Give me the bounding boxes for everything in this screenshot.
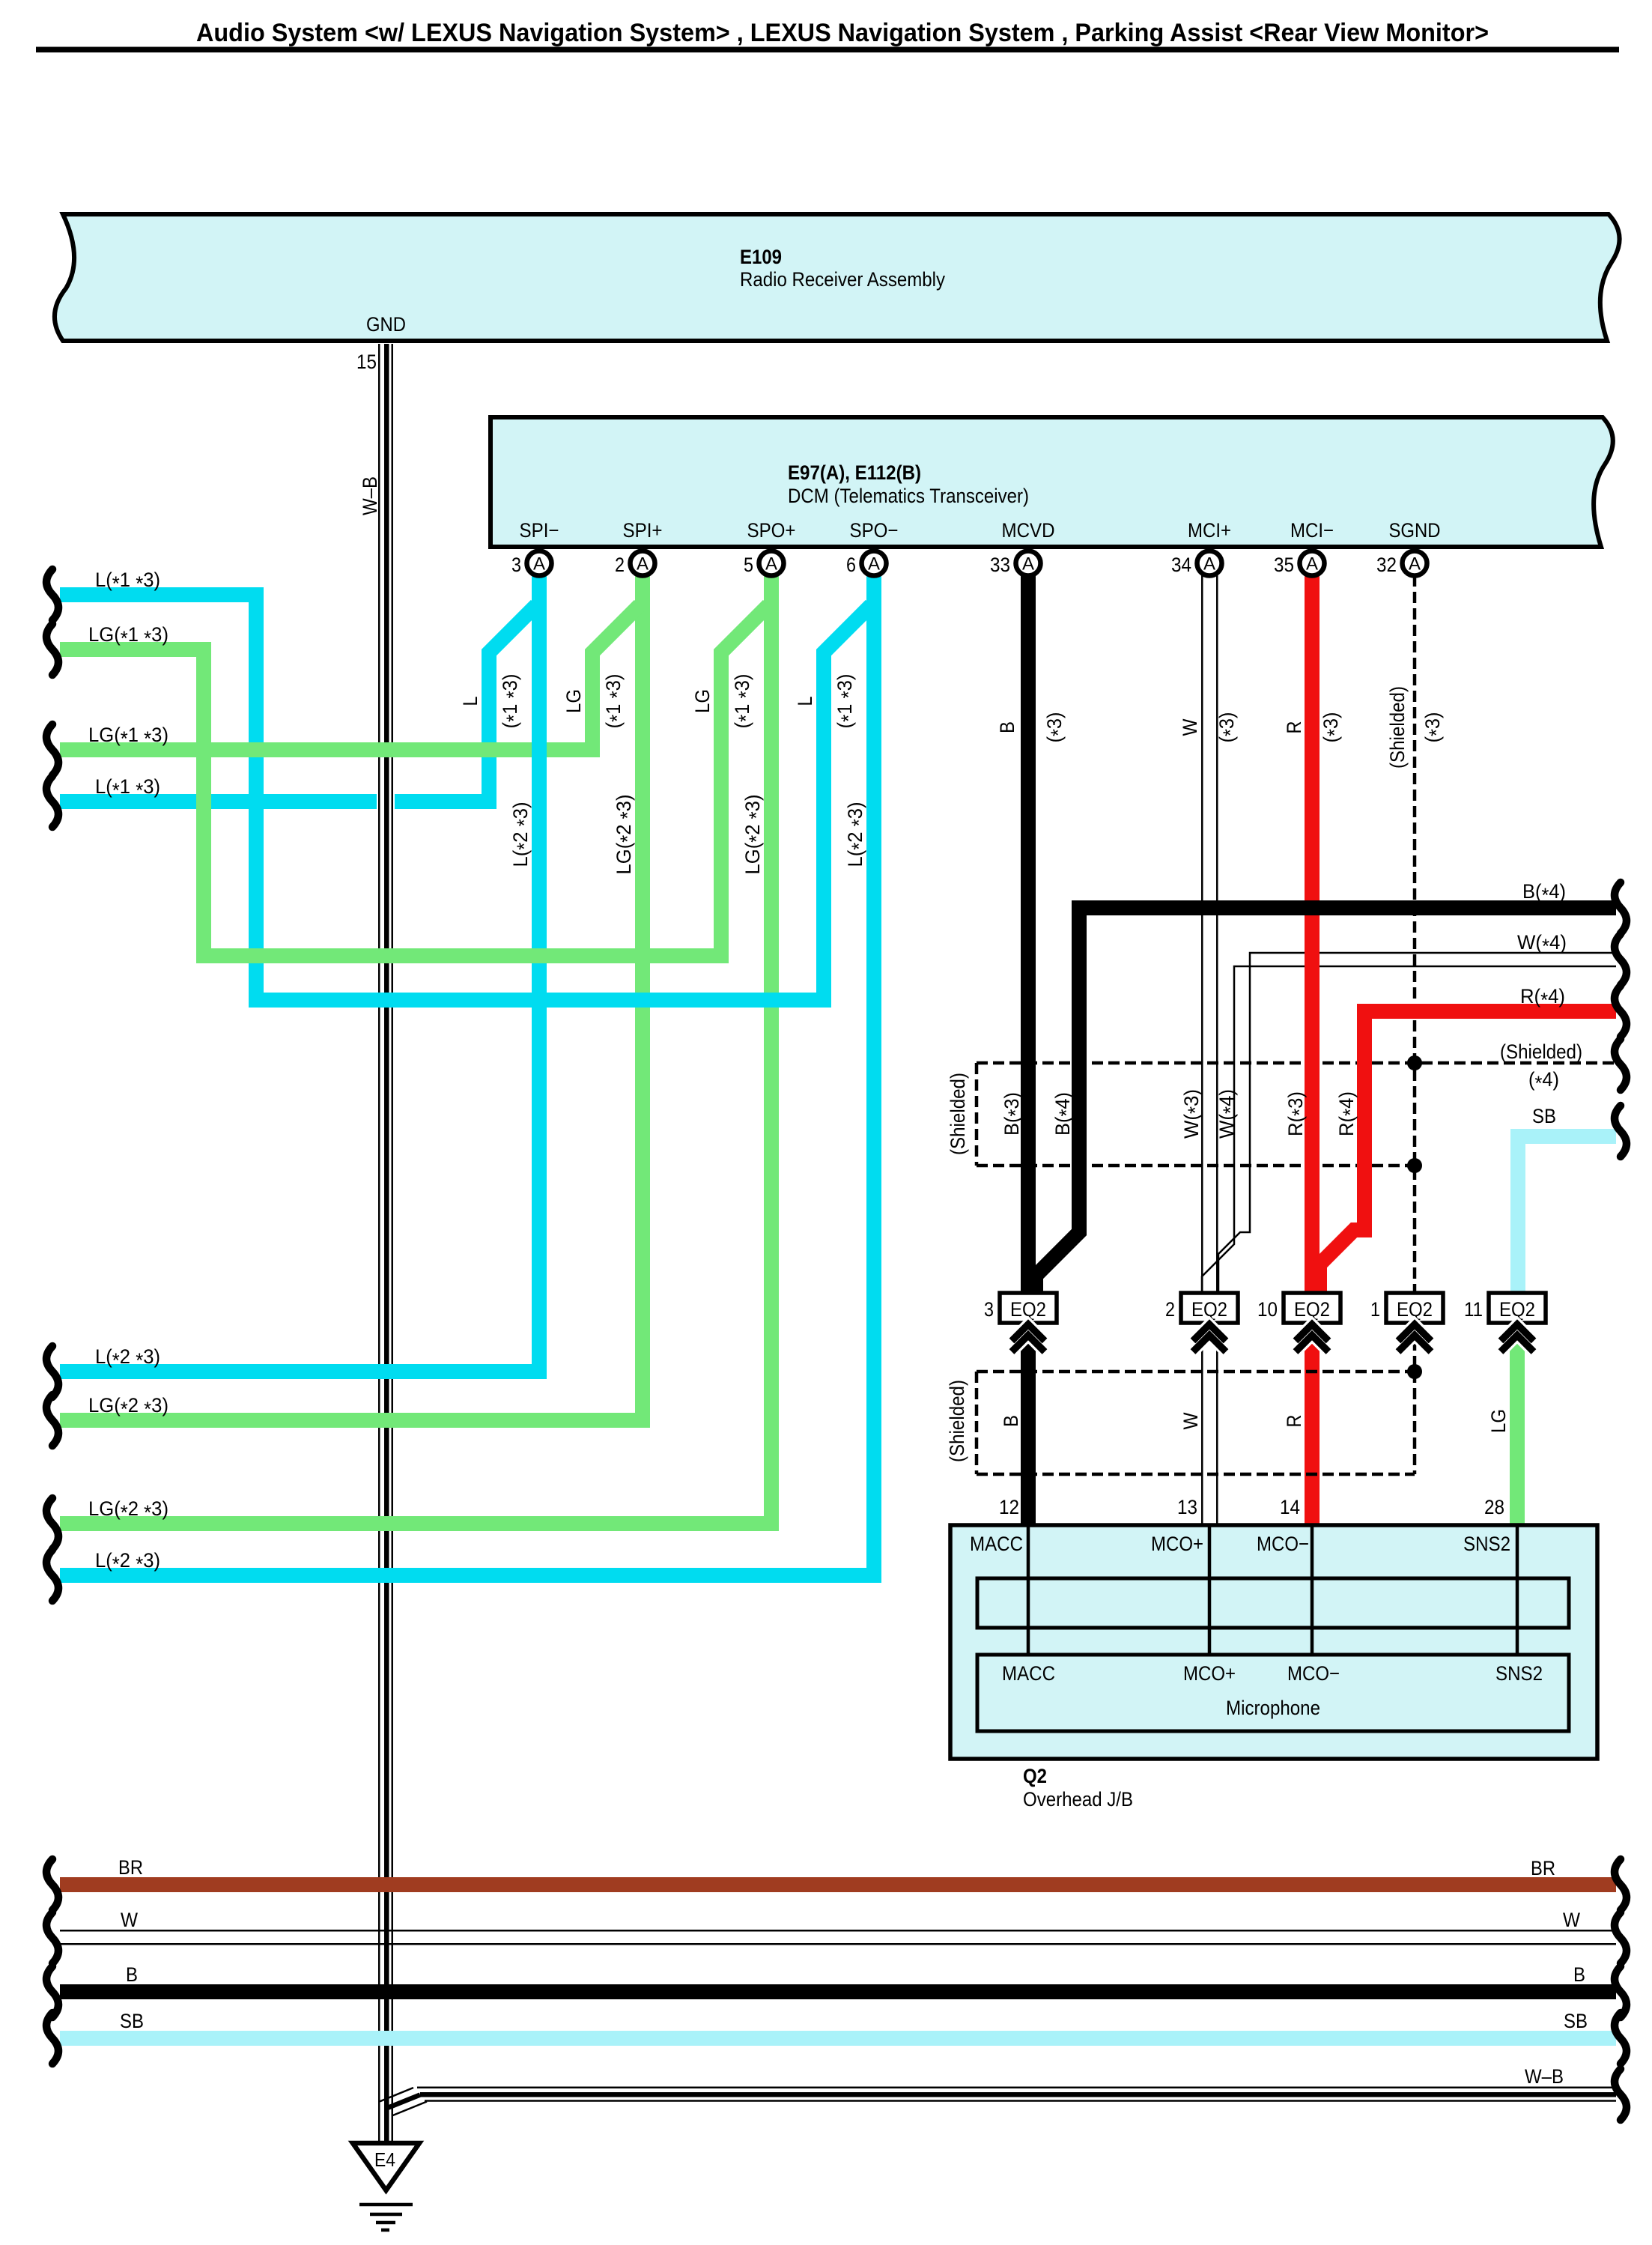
svg-text:14: 14: [1280, 1496, 1300, 1518]
svg-text:W: W: [121, 1909, 138, 1931]
svg-text:MCO+: MCO+: [1151, 1533, 1203, 1555]
svg-text:28: 28: [1484, 1496, 1504, 1518]
svg-text:GND: GND: [366, 313, 406, 336]
svg-text:LG: LG: [562, 689, 585, 713]
svg-text:(*1 *3): (*1 *3): [602, 674, 628, 729]
svg-text:LG: LG: [691, 689, 714, 713]
svg-text:BR: BR: [1531, 1857, 1555, 1879]
svg-text:10: 10: [1257, 1298, 1278, 1321]
svg-text:12: 12: [999, 1496, 1019, 1518]
svg-text:L(*2 *3): L(*2 *3): [844, 802, 870, 867]
svg-text:2: 2: [1165, 1298, 1175, 1321]
svg-text:MCI+: MCI+: [1188, 519, 1231, 542]
svg-text:6: 6: [846, 554, 856, 576]
svg-text:MCO−: MCO−: [1257, 1533, 1309, 1555]
svg-text:R(*4): R(*4): [1520, 985, 1565, 1011]
svg-text:(Shielded): (Shielded): [1386, 686, 1409, 769]
svg-text:MACC: MACC: [970, 1533, 1023, 1555]
svg-text:R(*3): R(*3): [1284, 1091, 1311, 1136]
svg-text:B: B: [1573, 1963, 1585, 1986]
svg-text:SB: SB: [1564, 2010, 1588, 2032]
svg-text:SNS2: SNS2: [1495, 1662, 1543, 1685]
svg-text:BR: BR: [118, 1856, 143, 1879]
svg-text:W(*3): W(*3): [1180, 1089, 1206, 1139]
svg-text:(*3): (*3): [1320, 712, 1346, 743]
svg-text:SB: SB: [1532, 1105, 1556, 1127]
svg-text:(*3): (*3): [1421, 712, 1448, 743]
svg-text:B(*4): B(*4): [1522, 880, 1566, 906]
svg-text:E109: E109: [740, 246, 782, 268]
svg-text:LG(*1 *3): LG(*1 *3): [88, 623, 168, 649]
svg-text:A: A: [637, 554, 649, 575]
svg-text:W–B: W–B: [359, 476, 381, 515]
svg-text:R(*4): R(*4): [1335, 1091, 1361, 1136]
svg-text:(Shielded): (Shielded): [1500, 1040, 1582, 1063]
svg-text:(Shielded): (Shielded): [946, 1380, 968, 1462]
svg-text:Audio System <w/ LEXUS Navigat: Audio System <w/ LEXUS Navigation System…: [196, 19, 1489, 47]
svg-text:L(*2 *3): L(*2 *3): [95, 1345, 160, 1372]
svg-text:Microphone: Microphone: [1226, 1697, 1320, 1719]
svg-text:W–B: W–B: [1525, 2065, 1564, 2088]
svg-text:3: 3: [984, 1298, 994, 1321]
svg-text:2: 2: [615, 554, 625, 576]
svg-text:LG: LG: [1487, 1409, 1510, 1433]
svg-text:W: W: [1563, 1909, 1580, 1931]
svg-text:Q2: Q2: [1023, 1765, 1047, 1787]
svg-text:Overhead J/B: Overhead J/B: [1023, 1788, 1133, 1811]
svg-text:(*1 *3): (*1 *3): [731, 674, 757, 729]
svg-text:MACC: MACC: [1002, 1662, 1055, 1685]
svg-text:B: B: [996, 721, 1018, 733]
svg-text:(Shielded): (Shielded): [947, 1073, 969, 1155]
svg-text:(*3): (*3): [1043, 712, 1069, 743]
svg-text:R: R: [1283, 1415, 1305, 1428]
svg-text:L(*2 *3): L(*2 *3): [95, 1549, 160, 1575]
svg-text:32: 32: [1376, 554, 1397, 576]
svg-text:MCO−: MCO−: [1287, 1662, 1340, 1685]
svg-text:A: A: [1022, 554, 1034, 575]
svg-text:LG(*2 *3): LG(*2 *3): [741, 795, 768, 875]
svg-text:B: B: [126, 1963, 138, 1986]
svg-text:(*4): (*4): [1528, 1068, 1559, 1094]
svg-text:SPI+: SPI+: [623, 519, 663, 542]
svg-text:1: 1: [1370, 1298, 1380, 1321]
svg-text:(*3): (*3): [1215, 712, 1242, 743]
svg-text:SPI−: SPI−: [520, 519, 559, 542]
svg-text:E97(A), E112(B): E97(A), E112(B): [788, 461, 921, 484]
svg-text:E4: E4: [374, 2148, 395, 2171]
svg-text:W(*4): W(*4): [1215, 1089, 1242, 1139]
svg-text:A: A: [765, 554, 777, 575]
svg-text:W: W: [1179, 718, 1201, 736]
svg-text:A: A: [1409, 554, 1421, 575]
svg-text:LG(*2 *3): LG(*2 *3): [613, 795, 639, 875]
svg-text:(*1 *3): (*1 *3): [833, 674, 860, 729]
svg-text:(*1 *3): (*1 *3): [499, 674, 525, 729]
svg-text:LG(*1 *3): LG(*1 *3): [88, 724, 168, 750]
svg-text:5: 5: [744, 554, 753, 576]
svg-text:R: R: [1283, 721, 1305, 734]
svg-text:B(*4): B(*4): [1051, 1092, 1078, 1136]
svg-text:15: 15: [356, 351, 377, 373]
svg-text:B(*3): B(*3): [1000, 1092, 1027, 1136]
svg-text:MCVD: MCVD: [1002, 519, 1055, 542]
svg-text:SNS2: SNS2: [1463, 1533, 1510, 1555]
svg-text:A: A: [868, 554, 880, 575]
svg-text:DCM (Telematics Transceiver): DCM (Telematics Transceiver): [788, 485, 1029, 507]
svg-text:L(*1 *3): L(*1 *3): [95, 569, 160, 595]
svg-text:33: 33: [990, 554, 1010, 576]
svg-text:Radio Receiver Assembly: Radio Receiver Assembly: [740, 268, 945, 291]
svg-text:L: L: [459, 697, 482, 706]
svg-text:SGND: SGND: [1389, 519, 1441, 542]
svg-text:11: 11: [1464, 1298, 1483, 1321]
svg-text:LG(*2 *3): LG(*2 *3): [88, 1497, 168, 1524]
svg-text:34: 34: [1171, 554, 1191, 576]
svg-text:SPO+: SPO+: [747, 519, 796, 542]
svg-text:L(*1 *3): L(*1 *3): [95, 775, 160, 802]
svg-text:W: W: [1179, 1412, 1202, 1429]
svg-text:LG(*2 *3): LG(*2 *3): [88, 1394, 168, 1420]
svg-text:L: L: [794, 697, 816, 706]
svg-text:SB: SB: [120, 2010, 144, 2032]
svg-text:13: 13: [1177, 1496, 1197, 1518]
svg-text:W(*4): W(*4): [1517, 931, 1567, 957]
svg-text:3: 3: [511, 554, 521, 576]
svg-text:MCI−: MCI−: [1290, 519, 1334, 542]
svg-text:SPO−: SPO−: [850, 519, 899, 542]
svg-text:B: B: [1000, 1415, 1022, 1427]
svg-text:A: A: [1203, 554, 1215, 575]
svg-text:35: 35: [1274, 554, 1294, 576]
svg-text:A: A: [1306, 554, 1318, 575]
svg-text:L(*2 *3): L(*2 *3): [509, 802, 535, 867]
svg-text:A: A: [533, 554, 545, 575]
svg-text:MCO+: MCO+: [1183, 1662, 1236, 1685]
